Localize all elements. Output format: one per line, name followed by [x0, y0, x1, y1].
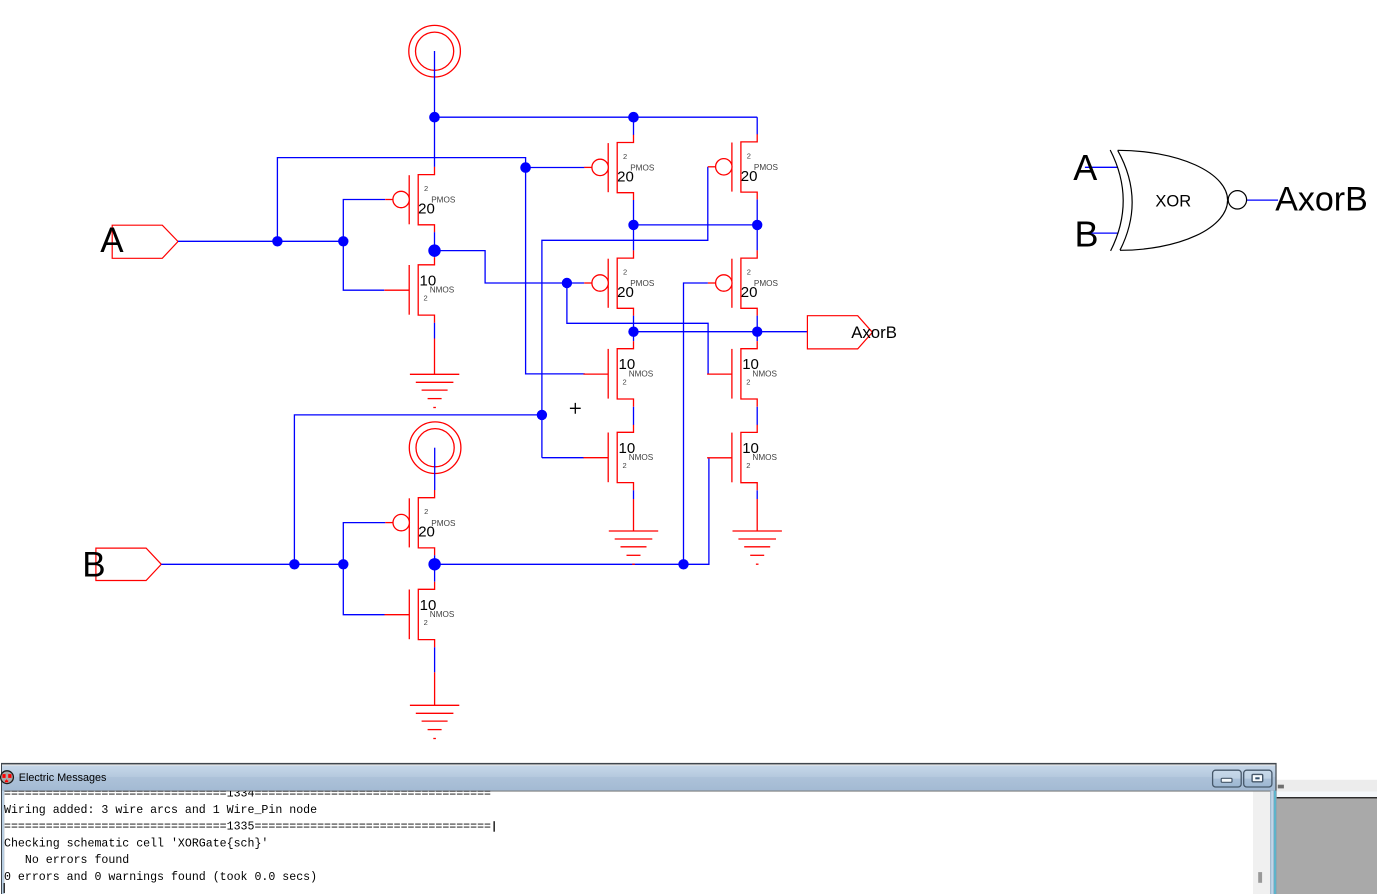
- wire nB up to right PMOS2 gate: [684, 283, 708, 564]
- wire A up branch: [277, 158, 525, 242]
- scrollbar thumb: [1258, 872, 1262, 883]
- svg-text:Wiring added: 3 wire arcs and: Wiring added: 3 wire arcs and 1 Wire_Pin…: [4, 804, 317, 817]
- desktop dark dash: [1278, 785, 1284, 789]
- svg-text:AxorB: AxorB: [1275, 180, 1368, 218]
- wire A down to middle NMOS1 gate: [526, 168, 585, 374]
- wire B vertical mid column: [542, 167, 708, 458]
- wire nA down branch to right NMOS3 gate: [567, 283, 708, 374]
- console text: [4, 787, 491, 883]
- svg-text:==============================: ================================1335====…: [4, 821, 491, 834]
- minimize button: [1213, 770, 1242, 787]
- transistor NMOS1 middle: [583, 341, 653, 407]
- junction out right: [752, 327, 762, 337]
- wire VDD1 stub down to rail: [434, 51, 436, 167]
- wire invA output to nA: [435, 251, 585, 283]
- wire out right column: [756, 316, 758, 342]
- wire out middle column: [633, 316, 635, 342]
- ground stub right: [756, 499, 758, 531]
- wire invB output nB to right: [435, 563, 684, 565]
- node invA output: [428, 244, 440, 256]
- transistor PMOS1 right: [708, 134, 779, 199]
- console caret bottom left: [4, 883, 5, 893]
- window title bar: [2, 766, 1275, 791]
- desktop dark area top border: [1277, 797, 1377, 798]
- XOR symbol output wire: [1247, 199, 1279, 201]
- pin AxorB: [807, 316, 872, 349]
- transistor PMOS invA: [385, 167, 456, 232]
- junction n1 right: [752, 220, 762, 230]
- svg-text:XOR: XOR: [1155, 193, 1191, 211]
- transistor PMOS invB: [385, 490, 456, 555]
- svg-text:B: B: [1075, 213, 1099, 254]
- transistor NMOS invA: [384, 257, 454, 323]
- junction n1 middle: [628, 220, 638, 230]
- wire A horizontal: [178, 240, 343, 242]
- junction A-2: [338, 236, 348, 246]
- wire middle NMOS2 to gnd: [633, 490, 635, 499]
- node invB output: [428, 558, 440, 570]
- wire right NMOS3-NMOS4: [756, 407, 758, 426]
- ground stub invA: [434, 339, 436, 375]
- wire B to middle NMOS2 gate: [542, 457, 584, 459]
- junction A-1: [272, 236, 282, 246]
- wire A to inverter PMOS gate: [343, 200, 385, 242]
- console caret line3: [494, 821, 495, 832]
- window icon: [1, 771, 14, 784]
- svg-text:A: A: [100, 221, 124, 260]
- junction nA: [562, 278, 572, 288]
- XOR symbol input wire A: [1085, 166, 1118, 168]
- desktop gray strip right of window: [1277, 780, 1377, 797]
- wire A to middle PMOS1 gate: [526, 167, 585, 169]
- transistor PMOS1 middle: [584, 135, 655, 200]
- window top highlight: [2, 765, 1275, 766]
- junction B-2: [338, 559, 348, 569]
- wire n1 right column: [756, 199, 758, 250]
- transistor NMOS invB: [385, 582, 455, 648]
- power symbol VDD1 (top): [409, 25, 461, 77]
- ground middle: [609, 531, 658, 564]
- cursor crosshair: [570, 403, 581, 414]
- transistor PMOS2 right: [708, 250, 779, 315]
- wire rail to middle PMOS top: [633, 117, 635, 135]
- transistor NMOS3 right: [707, 341, 777, 407]
- wire invB NMOS to gnd: [434, 647, 436, 672]
- wire B up-left branch: [294, 415, 542, 564]
- wire nB to right NMOS4 gate: [684, 458, 709, 565]
- wire invA mid node: [434, 232, 436, 257]
- junction B-1: [289, 559, 299, 569]
- wire invB mid node: [434, 555, 436, 582]
- console area: [4, 792, 1253, 894]
- wire B to invB NMOS gate: [343, 564, 384, 614]
- XOR gate body: [1110, 150, 1246, 251]
- junction A-top: [520, 162, 531, 173]
- wire right NMOS4 to gnd: [756, 490, 758, 499]
- junction nB: [678, 559, 688, 569]
- junction B-mid: [537, 410, 547, 420]
- wire rail to right PMOS top: [756, 117, 758, 134]
- wire n1 horizontal: [634, 224, 758, 226]
- desktop dark area: [1277, 797, 1377, 894]
- ground stub middle: [633, 499, 635, 531]
- wire out to pin: [757, 331, 807, 333]
- wire A to inverter NMOS gate: [343, 241, 384, 290]
- svg-text:B: B: [82, 546, 105, 585]
- svg-text:A: A: [1073, 147, 1097, 188]
- junction rail-vdd: [429, 112, 440, 123]
- junction rail-middle: [628, 112, 639, 123]
- window outer border: [1, 763, 1277, 894]
- transistor NMOS2 middle: [583, 425, 653, 491]
- window right frame: [1270, 791, 1274, 894]
- svg-text:No errors found: No errors found: [4, 854, 129, 867]
- wire VDD rail horizontal: [435, 116, 758, 118]
- window left frame: [2, 791, 4, 894]
- scrollbar track: [1253, 792, 1270, 894]
- ground invA: [410, 374, 459, 407]
- power symbol VDD2 (B inverter): [409, 422, 461, 474]
- wire B horizontal: [161, 563, 343, 565]
- svg-text:0 errors and 0 warnings found: 0 errors and 0 warnings found (took 0.0 …: [4, 871, 317, 884]
- transistor PMOS2 middle: [584, 250, 655, 315]
- svg-text:Electric Messages: Electric Messages: [19, 772, 107, 784]
- wire VDD2 stub: [434, 448, 436, 490]
- wire middle NMOS1-NMOS2: [633, 407, 635, 425]
- ground invB: [410, 705, 459, 738]
- pin A: [112, 225, 178, 258]
- wire invA NMOS to gnd: [434, 323, 436, 339]
- transistor NMOS4 right: [707, 425, 777, 491]
- wire B to invB PMOS gate: [343, 523, 385, 565]
- svg-text:AxorB: AxorB: [851, 323, 897, 342]
- XOR symbol input wire B: [1084, 232, 1118, 234]
- desktop light band: [1277, 792, 1377, 798]
- ground right: [733, 531, 782, 564]
- ground stub invB: [434, 672, 436, 705]
- junction out middle: [628, 327, 638, 337]
- wire out horizontal: [634, 331, 758, 333]
- wire n1 middle column: [633, 200, 635, 250]
- pin B: [96, 548, 161, 580]
- maximize button: [1244, 770, 1272, 787]
- svg-text:Checking schematic cell 'XORGa: Checking schematic cell 'XORGate{sch}': [4, 837, 268, 850]
